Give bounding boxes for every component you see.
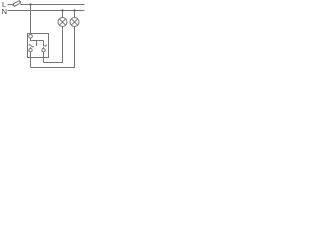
svg-text:N: N — [2, 7, 7, 16]
wire N line — [8, 10, 85, 12]
wire L line right segment — [21, 4, 85, 6]
lamp E1 — [58, 18, 67, 27]
wire output 1 down and out of box — [30, 52, 32, 68]
switch contact 1 lever — [30, 45, 32, 47]
switch contact 2 foot — [43, 45, 45, 47]
terminal circle output 2 — [42, 49, 45, 52]
junction dot on N line at lamp 1 — [61, 9, 63, 11]
wire lamp 1 down — [44, 27, 63, 63]
wire from input terminal down — [30, 38, 32, 40]
junction dot on L line — [29, 3, 31, 5]
wire stem above output terminal 1 — [30, 47, 32, 48]
wire lamp 2 down — [31, 27, 75, 68]
fuse switch-disconnector lever — [13, 1, 22, 6]
wire N to lamp 1 — [62, 11, 64, 18]
junction dot on N line at lamp 2 — [73, 9, 75, 11]
terminal circle output 1 — [29, 49, 32, 52]
wire N to lamp 2 — [74, 11, 76, 18]
switch contact 2 lever — [45, 45, 47, 47]
lamp E2 — [70, 18, 79, 27]
fuse body rectangle — [13, 1, 20, 7]
wire L line left segment — [8, 4, 13, 6]
switch contact 1 tick — [28, 44, 30, 46]
wire branch drop 2 — [43, 41, 45, 46]
wire stem above output terminal 2 — [43, 47, 45, 48]
wire common bar — [31, 40, 44, 42]
terminal circle input top — [29, 35, 33, 39]
background — [0, 0, 87, 71]
switch contact 1 foot — [32, 46, 34, 48]
wire branch drop 1 — [36, 41, 38, 46]
switch box S1 outline — [28, 34, 49, 58]
wire output 2 down and out of box — [43, 52, 45, 63]
wire from L down to switch box — [30, 5, 32, 34]
